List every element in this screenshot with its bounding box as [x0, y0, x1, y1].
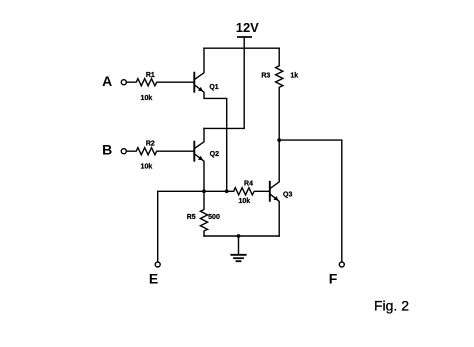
svg-text:R5: R5: [187, 214, 196, 221]
svg-text:B: B: [102, 142, 112, 158]
transistor Q3: [270, 140, 279, 236]
svg-text:R4: R4: [244, 181, 253, 188]
input terminal B circle: [121, 149, 126, 154]
svg-text:F: F: [329, 270, 338, 286]
svg-text:500: 500: [208, 214, 220, 221]
transistor Q1: [194, 48, 226, 191]
svg-text:R3: R3: [261, 73, 270, 80]
svg-text:R1: R1: [146, 72, 155, 79]
input terminal A circle: [121, 80, 126, 85]
svg-text:10k: 10k: [238, 198, 250, 205]
svg-text:10k: 10k: [141, 95, 153, 102]
svg-text:10k: 10k: [141, 163, 153, 170]
wire F branch: [279, 140, 342, 262]
resistor R1: [126, 79, 194, 86]
resistor R3: [276, 48, 283, 140]
svg-text:Q3: Q3: [283, 191, 292, 198]
node Q1 emitter: [225, 189, 229, 193]
wire power rail: [204, 47, 279, 49]
svg-text:E: E: [149, 271, 158, 287]
supply bar 12V terminal: [238, 36, 251, 38]
resistor R5: [200, 191, 207, 236]
svg-text:Q1: Q1: [209, 84, 218, 91]
resistor R4: [234, 188, 270, 195]
wire bottom line: [204, 235, 279, 237]
resistor R2: [126, 148, 194, 155]
node R3 / Q3 collector / F: [277, 138, 281, 142]
wire node line E to R4: [158, 191, 234, 262]
wire 12V stub down and elbow to Q2 collector: [204, 37, 244, 128]
node junction dots: [202, 138, 281, 238]
output terminal F circle: [339, 262, 344, 267]
svg-text:A: A: [102, 73, 112, 89]
node Q2 emitter / R5: [202, 189, 206, 193]
svg-text:1k: 1k: [290, 73, 298, 80]
ground: [231, 236, 245, 261]
svg-text:R2: R2: [146, 141, 155, 148]
svg-text:Q2: Q2: [210, 151, 219, 158]
node ground: [237, 234, 241, 238]
svg-text:Fig. 2: Fig. 2: [374, 298, 409, 314]
output terminal E circle: [155, 262, 160, 267]
svg-text:12V: 12V: [236, 20, 259, 35]
transistor Q2: [194, 128, 204, 191]
